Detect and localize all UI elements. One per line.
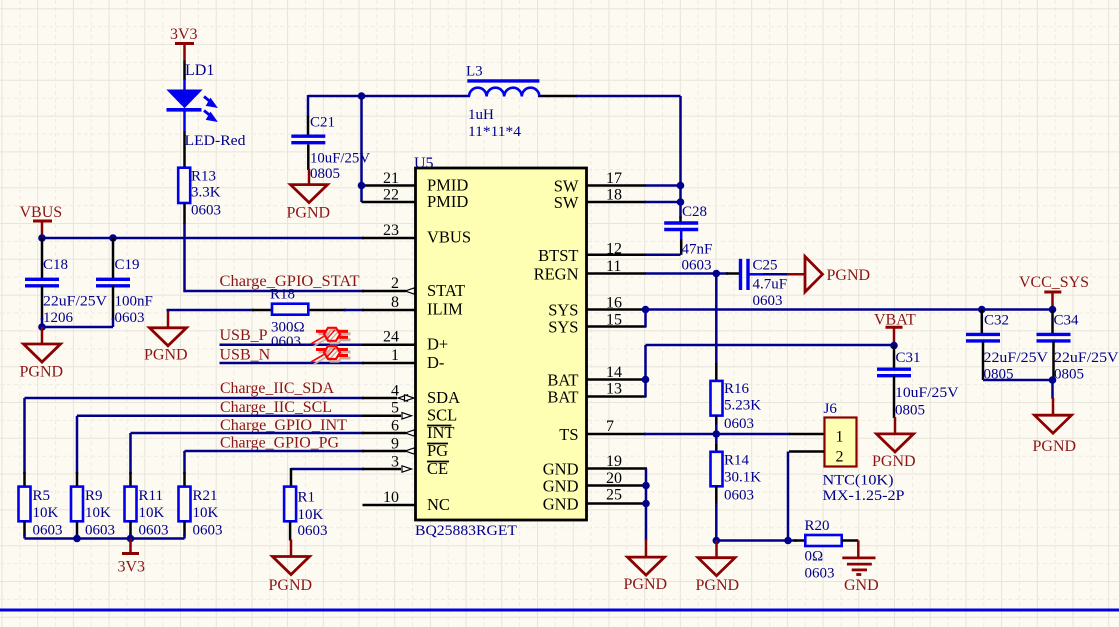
resistor R5	[19, 487, 31, 522]
wire PG	[185, 450, 407, 453]
ground PGND (R14)	[696, 541, 740, 595]
svg-text:4: 4	[391, 383, 399, 400]
junction R11 rail	[127, 535, 135, 543]
svg-text:REGN: REGN	[534, 265, 579, 284]
svg-text:MX-1.25-2P: MX-1.25-2P	[823, 488, 905, 504]
svg-text:SCL: SCL	[427, 406, 457, 425]
R13 labels	[191, 169, 221, 219]
svg-text:Charge_GPIO_INT: Charge_GPIO_INT	[220, 417, 347, 434]
junction VBUS-C19	[109, 234, 117, 242]
junction GND pin25	[642, 500, 650, 508]
svg-text:0603: 0603	[191, 203, 221, 219]
wire R21 bottom	[183, 521, 186, 538]
wire TS bottom rail	[716, 539, 796, 542]
svg-text:9: 9	[391, 436, 399, 453]
svg-text:Charge_IIC_SCL: Charge_IIC_SCL	[220, 399, 332, 416]
wire REGN	[587, 272, 739, 275]
C34 labels	[1054, 313, 1119, 383]
label LED-Red	[185, 133, 247, 149]
connector J6	[825, 418, 857, 467]
svg-text:PGND: PGND	[269, 577, 313, 594]
wire D+	[220, 344, 416, 347]
label BQ25883RGET	[415, 523, 517, 539]
wire SYS pin15	[587, 310, 646, 328]
wire SYS rail	[587, 308, 1052, 311]
svg-text:3V3: 3V3	[170, 26, 198, 43]
L3 labels	[466, 64, 522, 141]
svg-text:6: 6	[391, 418, 399, 435]
svg-text:10K: 10K	[193, 505, 219, 521]
svg-text:D+: D+	[427, 334, 448, 353]
wire SW pin18	[587, 201, 681, 204]
svg-text:C28: C28	[682, 204, 707, 220]
svg-text:C19: C19	[115, 257, 140, 273]
svg-text:ILIM: ILIM	[427, 299, 463, 318]
junction J6-rail	[784, 537, 792, 545]
svg-text:0603: 0603	[115, 310, 145, 326]
svg-text:10K: 10K	[33, 505, 59, 521]
label NTC(10K)	[823, 473, 894, 489]
diff pair marker USB_N	[311, 346, 351, 365]
wire SW vertical	[679, 96, 682, 223]
svg-text:13: 13	[606, 381, 622, 398]
pin 2 arrow	[405, 288, 415, 294]
junction REGN-R16	[713, 270, 721, 278]
svg-text:BQ25883RGET: BQ25883RGET	[415, 523, 517, 539]
resistor R16	[711, 381, 723, 416]
pin 9 arrow	[405, 448, 415, 454]
power port VBAT	[874, 312, 916, 346]
svg-text:10K: 10K	[85, 505, 111, 521]
resistor R1	[284, 487, 296, 522]
wire BAT rail	[587, 345, 894, 380]
svg-text:0805: 0805	[310, 166, 340, 182]
wire SDA	[25, 397, 398, 400]
wire 3V3 to LD1	[183, 61, 186, 81]
resistor R11	[125, 487, 137, 522]
junction SYS-C32	[978, 306, 986, 314]
capacitor C28	[664, 223, 698, 255]
svg-text:0603: 0603	[139, 523, 169, 539]
resistor R18	[272, 304, 308, 315]
junction SYS-C34	[1049, 306, 1057, 314]
wire R20 left	[794, 539, 805, 542]
U5 right pin names	[534, 177, 579, 514]
svg-text:VBUS: VBUS	[427, 227, 471, 246]
junction PMID pin21	[358, 182, 366, 190]
junction R9 rail	[73, 535, 81, 543]
svg-text:4.7uF: 4.7uF	[753, 277, 788, 293]
svg-text:USB_P: USB_P	[220, 327, 268, 344]
svg-text:0603: 0603	[724, 488, 754, 504]
resistor R20	[805, 535, 841, 546]
wire GND pin19	[587, 467, 647, 470]
label LD1	[185, 62, 214, 79]
svg-text:0603: 0603	[753, 293, 783, 309]
svg-text:0603: 0603	[682, 258, 712, 274]
svg-text:LD1: LD1	[185, 62, 214, 79]
J6 pin labels	[836, 429, 844, 466]
svg-text:BTST: BTST	[538, 246, 578, 265]
capacitor C19	[96, 238, 130, 327]
power port VBUS	[20, 204, 63, 238]
R5 labels	[33, 488, 63, 539]
svg-text:3V3: 3V3	[118, 559, 146, 576]
svg-text:BAT: BAT	[547, 388, 578, 407]
ground PGND (R1)	[269, 540, 313, 595]
wire R16 bottom	[715, 416, 718, 434]
inductor L3	[467, 81, 539, 97]
junction R14-rail	[713, 537, 721, 545]
junction BAT pin14	[642, 376, 650, 384]
wire R1 bottom	[289, 521, 292, 540]
capacitor C34	[1037, 310, 1071, 381]
svg-text:VBUS: VBUS	[20, 204, 63, 221]
net label USB_N	[220, 347, 271, 364]
svg-text:25: 25	[606, 487, 622, 504]
net label Charge_GPIO_INT	[220, 417, 347, 434]
junction TS divider	[713, 430, 721, 438]
wire C34 to PGND	[1051, 380, 1054, 399]
svg-text:24: 24	[383, 329, 399, 346]
svg-text:NC: NC	[427, 495, 450, 514]
ground PGND (C21)	[287, 169, 331, 222]
C32 labels	[984, 313, 1049, 383]
svg-text:0603: 0603	[33, 523, 63, 539]
svg-text:1: 1	[391, 347, 399, 364]
junction SYS pin16	[642, 306, 650, 314]
power port 3V3 (top)	[170, 26, 198, 61]
svg-text:SYS: SYS	[548, 318, 578, 337]
svg-text:R14: R14	[724, 453, 750, 469]
svg-text:3.3K: 3.3K	[191, 185, 221, 201]
svg-text:PMID: PMID	[427, 192, 468, 211]
C18 labels	[43, 257, 107, 326]
wire STAT	[185, 290, 407, 293]
U5 right pin numbers	[606, 170, 622, 504]
wire C32-C34 bottom	[983, 379, 1053, 382]
capacitor C32	[966, 310, 1000, 381]
net label Charge_GPIO_PG	[220, 435, 339, 452]
wire SCL	[77, 415, 401, 418]
resistor R21	[179, 487, 191, 522]
junction SW pin18	[677, 198, 685, 206]
wire J6 pin2	[788, 452, 824, 541]
svg-text:10uF/25V: 10uF/25V	[895, 385, 959, 401]
R9 labels	[85, 488, 115, 539]
svg-text:1206: 1206	[43, 310, 74, 326]
svg-text:22uF/25V: 22uF/25V	[43, 294, 107, 310]
wire GND collector	[645, 469, 648, 541]
svg-text:10K: 10K	[298, 507, 324, 523]
svg-text:R11: R11	[139, 488, 163, 504]
svg-text:SW: SW	[554, 193, 579, 212]
svg-text:R13: R13	[191, 169, 216, 185]
ground PGND (U5 GND)	[624, 539, 668, 593]
capacitor C31	[877, 346, 911, 419]
wire VBUS rail	[42, 237, 415, 240]
wire ILIM	[167, 309, 416, 312]
junction VBAT-C31	[890, 342, 898, 350]
svg-text:GND: GND	[543, 495, 579, 514]
svg-text:PGND: PGND	[287, 205, 331, 222]
junction SW pin17	[677, 182, 685, 190]
svg-text:R16: R16	[724, 381, 750, 397]
pin 3 arrow	[402, 466, 412, 472]
ground PGND (C18/C19)	[20, 327, 64, 381]
resistor R13	[178, 168, 190, 203]
diff pair marker USB_P	[311, 328, 351, 347]
svg-text:PGND: PGND	[872, 453, 916, 470]
svg-text:R21: R21	[193, 488, 218, 504]
svg-text:0603: 0603	[85, 523, 115, 539]
svg-text:PGND: PGND	[624, 576, 668, 593]
svg-text:2: 2	[391, 275, 399, 292]
svg-text:PGND: PGND	[144, 347, 188, 364]
svg-text:0603: 0603	[724, 416, 754, 432]
wire GND pin20	[587, 484, 647, 487]
resistor R14	[711, 452, 723, 487]
svg-text:PGND: PGND	[1033, 438, 1077, 455]
svg-text:R1: R1	[298, 490, 316, 506]
svg-text:USB_N: USB_N	[220, 347, 271, 364]
ground PGND (R18)	[144, 311, 188, 364]
U5 left pin numbers	[383, 170, 399, 506]
svg-text:U5: U5	[414, 155, 434, 172]
svg-text:100nF: 100nF	[115, 294, 153, 310]
wire R13 to STAT net	[183, 203, 186, 292]
svg-text:10K: 10K	[139, 505, 165, 521]
svg-text:22: 22	[383, 187, 399, 204]
svg-text:D-: D-	[427, 353, 444, 372]
R20 labels	[805, 518, 835, 582]
pin 10 stub	[363, 504, 416, 507]
svg-text:1uH: 1uH	[468, 107, 494, 123]
R1 labels	[298, 490, 328, 540]
svg-text:GND: GND	[543, 477, 579, 496]
wire TS	[587, 433, 824, 436]
wire LD1 to R13	[183, 131, 186, 168]
junction VBUS-C18	[38, 234, 46, 242]
resistor R9	[71, 487, 83, 522]
C21 labels	[310, 115, 370, 183]
wire pullup rail	[25, 537, 185, 540]
wire R5 top	[23, 398, 26, 487]
svg-text:C31: C31	[896, 350, 921, 366]
wire BAT pin13	[587, 380, 646, 398]
wire R16 top	[715, 274, 718, 382]
label MX-1.25-2P	[823, 488, 905, 504]
capacitor C25	[741, 259, 806, 290]
svg-text:PGND: PGND	[827, 267, 871, 284]
svg-text:L3: L3	[466, 64, 483, 80]
wire R11 top	[129, 433, 132, 487]
net label Charge_IIC_SCL	[220, 399, 332, 416]
wire PMID top rail	[308, 95, 681, 98]
wire R5 bottom	[23, 521, 26, 538]
svg-text:NTC(10K): NTC(10K)	[823, 473, 894, 489]
svg-text:TS: TS	[559, 425, 578, 444]
wire R21 top	[183, 451, 186, 487]
svg-text:R20: R20	[805, 518, 830, 534]
svg-text:17: 17	[606, 170, 622, 187]
wire R14 top	[715, 434, 718, 452]
op IC U5 BQ25883RGET body	[416, 168, 587, 520]
svg-text:C18: C18	[43, 257, 68, 273]
wire BTST	[587, 254, 681, 257]
svg-text:21: 21	[383, 170, 399, 187]
svg-text:30.1K: 30.1K	[724, 470, 761, 486]
R18 labels	[270, 287, 305, 351]
label U5	[414, 155, 434, 172]
R16 labels	[724, 381, 761, 432]
net label USB_P	[220, 327, 268, 344]
junction GND pin20	[642, 482, 650, 490]
wire D-	[220, 362, 416, 365]
svg-text:18: 18	[606, 187, 622, 204]
svg-text:23: 23	[383, 222, 399, 239]
svg-text:47nF: 47nF	[682, 242, 713, 258]
power port VCC_SYS	[1019, 274, 1089, 310]
R21 labels	[193, 488, 223, 539]
net label Charge_GPIO_STAT	[220, 273, 360, 290]
R11 labels	[139, 488, 169, 539]
wire R9 bottom	[76, 521, 79, 538]
svg-text:PGND: PGND	[20, 364, 64, 381]
svg-text:0603: 0603	[271, 334, 301, 350]
C31 labels	[895, 350, 959, 419]
C25 labels	[753, 258, 788, 310]
wire SW pin17	[587, 184, 681, 187]
svg-text:5: 5	[391, 400, 399, 417]
svg-text:C25: C25	[753, 258, 778, 274]
capacitor C18	[25, 238, 59, 327]
svg-text:22uF/25V: 22uF/25V	[1054, 350, 1119, 366]
svg-text:C32: C32	[984, 313, 1009, 329]
C28 labels	[682, 204, 713, 274]
svg-text:R9: R9	[85, 488, 103, 504]
label J6	[824, 401, 838, 417]
svg-text:22uF/25V: 22uF/25V	[984, 350, 1049, 366]
svg-text:VCC_SYS: VCC_SYS	[1019, 274, 1089, 291]
svg-text:0603: 0603	[298, 523, 328, 539]
svg-text:8: 8	[391, 294, 399, 311]
svg-text:0603: 0603	[193, 523, 223, 539]
svg-text:LED-Red: LED-Red	[185, 133, 247, 149]
pin 6 arrow	[405, 430, 415, 436]
U5 left pin names	[427, 175, 471, 514]
capacitor C21	[291, 136, 325, 170]
svg-text:C21: C21	[310, 115, 335, 131]
wire PMID vertical to pins	[362, 96, 416, 202]
wire R14 bottom	[715, 486, 718, 540]
pin 4 arrows	[398, 395, 414, 401]
C19 labels	[115, 257, 153, 326]
svg-text:0Ω: 0Ω	[805, 549, 824, 565]
svg-text:R5: R5	[33, 488, 51, 504]
svg-text:3: 3	[391, 454, 399, 471]
svg-text:Charge_GPIO_PG: Charge_GPIO_PG	[220, 435, 339, 452]
svg-text:0603: 0603	[805, 566, 835, 582]
R14 labels	[724, 453, 761, 504]
svg-text:STAT: STAT	[427, 281, 465, 300]
svg-text:R18: R18	[270, 287, 295, 303]
junction C34 bottom	[1049, 376, 1057, 384]
LED LD1	[167, 79, 217, 131]
junction caps-PGND	[38, 323, 46, 331]
ground PGND (C31)	[872, 417, 916, 470]
svg-text:GND: GND	[844, 577, 879, 594]
svg-text:12: 12	[606, 241, 622, 258]
svg-text:10: 10	[383, 489, 399, 506]
svg-text:11*11*4: 11*11*4	[468, 124, 522, 140]
svg-text:1: 1	[836, 429, 844, 446]
wire R11 bottom	[129, 521, 132, 538]
ground PGND (C34)	[1033, 398, 1077, 455]
wire PMID down to C21	[307, 95, 310, 135]
power port 3V3 (bottom)	[118, 539, 146, 576]
svg-text:7: 7	[606, 418, 614, 435]
svg-text:J6: J6	[824, 401, 838, 417]
ground GND (earth)	[842, 541, 878, 595]
sheet border line	[0, 609, 1119, 612]
svg-text:PGND: PGND	[696, 577, 740, 594]
svg-text:SDA: SDA	[427, 388, 460, 407]
ground PGND (C25, right-pointing)	[805, 257, 870, 293]
svg-text:2: 2	[836, 449, 844, 466]
svg-text:0805: 0805	[1054, 367, 1084, 383]
wire CE	[291, 468, 401, 487]
net label Charge_IIC_SDA	[220, 380, 334, 397]
wire C18-C19 bottom	[42, 326, 113, 329]
pin 5 arrow	[402, 413, 412, 419]
wire R9 top	[76, 416, 79, 487]
wire GND pin25	[587, 502, 647, 505]
svg-text:0805: 0805	[895, 403, 925, 419]
wire INT	[131, 432, 407, 435]
svg-text:Charge_IIC_SDA: Charge_IIC_SDA	[220, 380, 334, 397]
svg-text:5.23K: 5.23K	[724, 398, 761, 414]
wire R20 right	[842, 539, 859, 542]
junction PMID top	[358, 92, 366, 100]
svg-text:C34: C34	[1054, 313, 1080, 329]
